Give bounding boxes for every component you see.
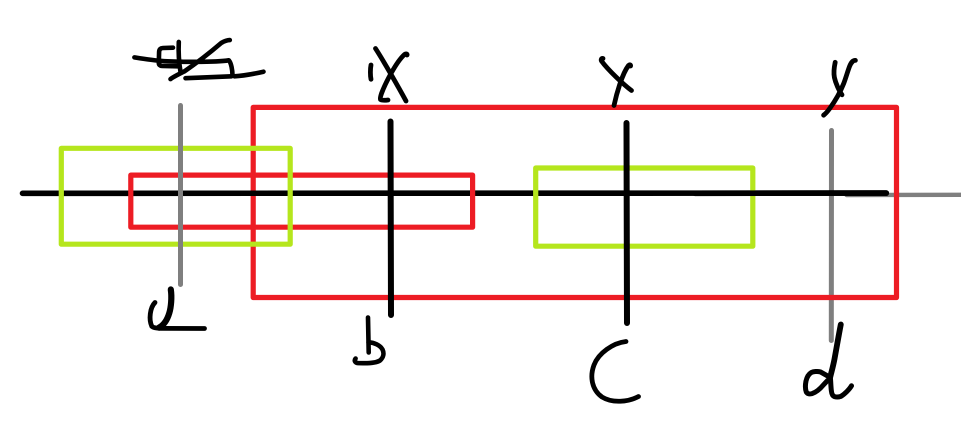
- X mark above c: [601, 58, 631, 105]
- small red rectangle (over axis line): [131, 175, 473, 227]
- large red rectangle: [253, 107, 896, 297]
- gray vertical line d (drawn first, under red rectangle): [829, 131, 834, 341]
- X mark above d: [824, 60, 856, 115]
- black vertical line c (over green rectangle right): [624, 123, 631, 323]
- letter a label: [150, 290, 204, 329]
- main horizontal axis line (over large red rectangle): [23, 190, 887, 196]
- letter c label: [592, 342, 639, 402]
- crossed-out scribble top-left: [134, 40, 263, 79]
- black vertical line b (over small red rectangle): [388, 122, 395, 316]
- letter b label: [355, 318, 384, 364]
- gray vertical line a (topmost of the crossing strokes): [178, 106, 183, 285]
- green rectangle right (over axis line): [536, 168, 753, 246]
- X mark above b with tick: [370, 49, 407, 102]
- main axis line right segment (over green rectangle right): [695, 190, 886, 196]
- green rectangle left (over small red rectangle): [61, 148, 290, 244]
- gray horizontal segment right (under red rectangle): [847, 193, 961, 198]
- letter d label: [805, 325, 851, 397]
